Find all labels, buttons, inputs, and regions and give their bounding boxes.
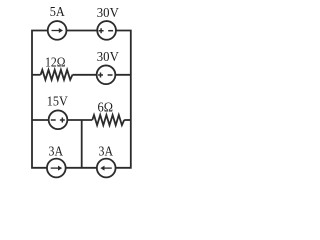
svg-text:12Ω: 12Ω [45, 56, 66, 71]
wire row2 left lead [32, 74, 41, 76]
svg-text:3A: 3A [49, 145, 64, 160]
label 15V [47, 95, 68, 110]
resistor R2 6ohm zigzag [92, 115, 124, 125]
current source I2 3A [47, 159, 66, 178]
svg-text:3A: 3A [99, 145, 114, 160]
current source I1 5A [48, 21, 67, 40]
svg-text:15V: 15V [47, 95, 68, 110]
label 5A [50, 5, 66, 20]
label 3A (left) [49, 145, 64, 160]
resistor R1 12ohm zigzag [41, 70, 73, 80]
current source I3 3A [97, 159, 116, 178]
svg-text:30V: 30V [97, 6, 119, 21]
label 30V (second) [97, 50, 119, 65]
label 30V [97, 6, 119, 21]
voltage source V1 30V [97, 21, 116, 40]
voltage source V2 30V [97, 65, 116, 84]
svg-text:6Ω: 6Ω [98, 100, 114, 115]
wire row3 right lead [124, 119, 131, 121]
label 12ohm [45, 56, 66, 71]
wire row3 left [32, 119, 92, 121]
svg-text:30V: 30V [97, 50, 119, 65]
wire row2 right [73, 74, 131, 76]
svg-text:5A: 5A [50, 5, 66, 20]
label 6ohm [98, 100, 114, 115]
wire middle rail (node between V3 and R2 down to bottom) [81, 120, 83, 168]
wire outer loop [32, 31, 131, 168]
voltage source V3 15V [49, 110, 68, 129]
label 3A (right) [99, 145, 114, 160]
